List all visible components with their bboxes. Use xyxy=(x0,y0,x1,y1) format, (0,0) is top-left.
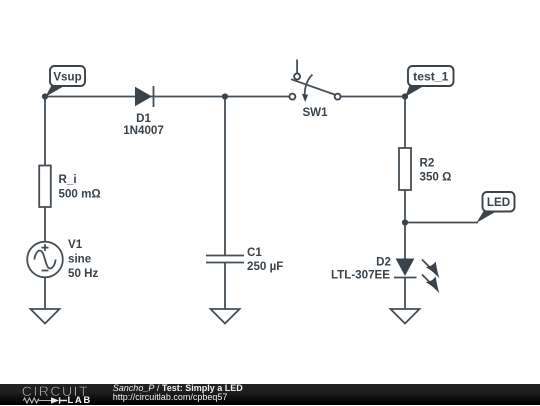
svg-text:LED: LED xyxy=(487,196,510,209)
svg-text:R2: R2 xyxy=(420,157,435,170)
svg-text:1N4007: 1N4007 xyxy=(123,124,164,137)
svg-text:SW1: SW1 xyxy=(302,106,328,119)
svg-text:250 µF: 250 µF xyxy=(247,260,283,273)
svg-text:500 mΩ: 500 mΩ xyxy=(59,188,101,201)
svg-text:C1: C1 xyxy=(247,246,262,259)
svg-text:350 Ω: 350 Ω xyxy=(420,171,452,184)
svg-text:sine: sine xyxy=(68,253,92,266)
svg-text:D2: D2 xyxy=(376,256,391,269)
svg-text:R_i: R_i xyxy=(59,173,77,186)
svg-text:50 Hz: 50 Hz xyxy=(68,267,98,280)
svg-text:LTL-307EE: LTL-307EE xyxy=(331,269,390,282)
svg-text:V1: V1 xyxy=(68,238,83,251)
svg-text:Vsup: Vsup xyxy=(53,71,81,84)
svg-text:test_1: test_1 xyxy=(413,70,448,84)
